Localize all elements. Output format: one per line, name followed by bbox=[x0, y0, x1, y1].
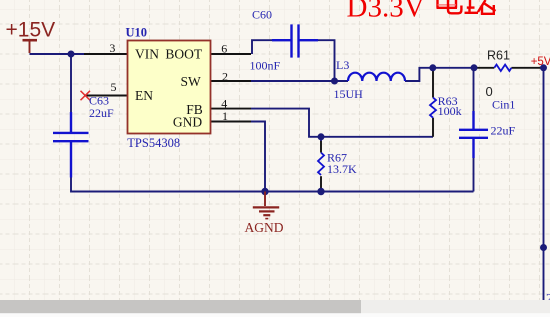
svg-text:5: 5 bbox=[111, 80, 117, 94]
svg-text:+5V: +5V bbox=[531, 56, 550, 68]
svg-text:TPS54308: TPS54308 bbox=[127, 136, 180, 150]
svg-text:1: 1 bbox=[222, 109, 228, 123]
svg-text:L3: L3 bbox=[336, 58, 349, 72]
svg-text:6: 6 bbox=[221, 42, 227, 56]
svg-text:Cin1: Cin1 bbox=[492, 98, 515, 112]
svg-text:0: 0 bbox=[486, 84, 493, 99]
svg-text:AGND: AGND bbox=[245, 220, 284, 235]
svg-text:U10: U10 bbox=[126, 26, 148, 40]
svg-text:13.7K: 13.7K bbox=[327, 162, 357, 176]
svg-text:3: 3 bbox=[109, 41, 115, 55]
svg-text:100k: 100k bbox=[438, 104, 462, 118]
svg-text:100nF: 100nF bbox=[250, 59, 281, 73]
svg-text:22uF: 22uF bbox=[89, 106, 114, 120]
svg-text:BOOT: BOOT bbox=[165, 46, 203, 61]
svg-text:R61: R61 bbox=[487, 48, 510, 62]
svg-text:VIN: VIN bbox=[135, 46, 159, 61]
svg-text:D3.3V: D3.3V bbox=[347, 0, 425, 23]
svg-text:C60: C60 bbox=[252, 8, 272, 22]
svg-text:SW: SW bbox=[181, 74, 202, 89]
svg-text:22uF: 22uF bbox=[491, 124, 516, 138]
svg-text:+15V: +15V bbox=[6, 18, 56, 41]
svg-text:15UH: 15UH bbox=[334, 87, 364, 101]
svg-text:GND: GND bbox=[173, 114, 202, 129]
svg-text:2: 2 bbox=[222, 69, 228, 83]
svg-text:EN: EN bbox=[135, 88, 153, 103]
